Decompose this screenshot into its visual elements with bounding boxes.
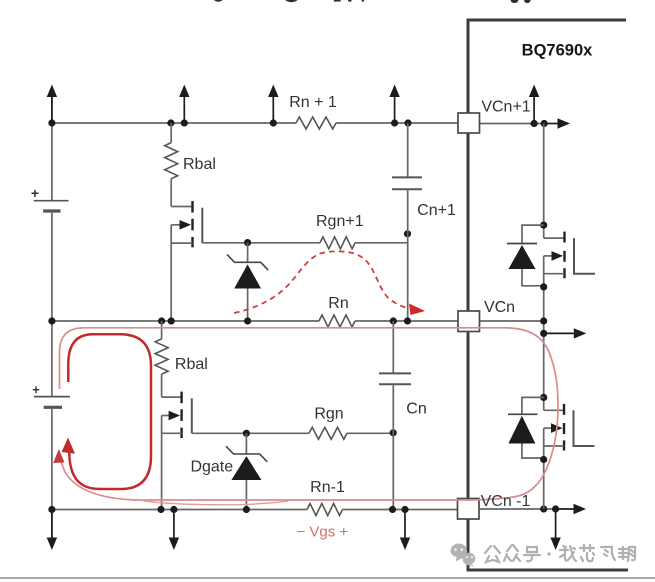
arrow up cell terminal x=534.1 [529, 85, 539, 124]
junction bottom rail x=246.4 [243, 506, 250, 513]
wire internal bus mid segment [543, 256, 545, 410]
transistor Q2 drain lead [162, 396, 182, 398]
wire Rbal2 bottom lead [161, 374, 163, 397]
arrow right at VCn internal [544, 328, 587, 338]
junction bottom rail x=543.7 [540, 505, 547, 512]
diode DL cathode bar [508, 413, 538, 415]
transistor Q2 gate plate [191, 398, 193, 433]
wire Q2 source bus to bottom rail [161, 416, 163, 510]
svg-text:− Vgs +: − Vgs + [296, 524, 348, 541]
junction internal diode L bottom [540, 456, 547, 463]
transistor Q1 gate plate [201, 208, 203, 243]
junction top rail x=170.9 [167, 119, 174, 126]
junction bottom rail x=173.9 [170, 506, 177, 513]
wire zener D1 bottom lead [247, 289, 249, 322]
transistor Q2 body arrow [169, 411, 181, 421]
transistor Q2 source lead [162, 432, 182, 434]
junction bottom rail x=161 [157, 506, 164, 513]
zener D1 cathode bar with wings [227, 255, 268, 271]
transistor Q1 source lead [171, 242, 192, 244]
wire Q1 source bus to VCn rail [170, 225, 172, 321]
zener Dgate triangle [231, 456, 261, 480]
junction VCn rail x=247.6 [244, 317, 251, 324]
svg-text:Dgate: Dgate [190, 459, 233, 476]
transistor QL body arrow [551, 423, 563, 433]
transistor Q1 body arrow lead [171, 224, 182, 226]
junction VCn rail x=407.5 [404, 317, 411, 324]
wire battery column bottom [51, 407, 53, 539]
IC U1 BQ7690x outline [468, 20, 628, 570]
junction gate row lower / Dgate [243, 430, 250, 437]
diode DU triangle [509, 245, 536, 269]
junction bottom rail x=51.9 [48, 506, 55, 513]
battery cell BT1 short plate [43, 209, 60, 212]
zener D1 triangle [234, 264, 261, 288]
svg-text:VCn -1: VCn -1 [481, 493, 531, 510]
diode DL branch wires [522, 397, 544, 458]
battery cell BT2 short plate [44, 406, 62, 409]
wire internal bus lower segment [543, 428, 545, 509]
capacitor Cn plates [379, 373, 411, 384]
junction VCn rail x=171.2 [168, 317, 175, 324]
wire bottom rail left of Rn-1 [52, 509, 307, 511]
junction internal diode U bottom [540, 283, 547, 290]
wire Cn+1 bottom lead [407, 189, 409, 321]
red circulation oval arrowhead [62, 438, 75, 454]
wire VCn rail left of Rn [52, 320, 319, 322]
wire Rbal1 bottom lead [170, 179, 172, 207]
arrow up cell terminal x=51.9 [47, 85, 57, 124]
junction internal bus arrow tap [540, 330, 547, 337]
resistor Rbal (upper) zigzag [165, 143, 178, 179]
wire VCn pin to internal bus [479, 320, 544, 322]
wire gate row upper to Cn+1 column [355, 242, 408, 244]
arrow up cell terminal x=184.3 [179, 85, 189, 124]
junction bottom rail x=405 [401, 506, 408, 513]
red current loop outer (cell n to chip and back) [60, 328, 559, 500]
wire Rbal1 top lead [170, 123, 172, 143]
junction top rail x=51.9 [48, 119, 55, 126]
watermark middot [547, 552, 551, 556]
transistor QU channel segments [563, 232, 565, 279]
wire bottom rail right of Rn-1 [343, 509, 458, 511]
junction VCn rail x=393.3 [390, 317, 397, 324]
transistor Q1 body arrow [180, 220, 192, 230]
arrow right at VCn-1 internal [556, 504, 586, 514]
arrow right at VCn+1 internal [545, 118, 570, 128]
junction top rail x=534.1 [531, 120, 538, 127]
junction on Cn+1 column [404, 230, 411, 237]
diode DU branch wires [522, 225, 544, 286]
junction top rail x=544.2 [541, 120, 548, 127]
wire gate row upper from Q1 gate [202, 242, 320, 244]
transistor QU body arrow lead [544, 255, 554, 257]
svg-text:Rbal: Rbal [175, 356, 208, 373]
transistor QU source lead [544, 273, 565, 275]
arrow up cell terminal x=394.6 [389, 85, 399, 124]
diode DL triangle [508, 416, 535, 444]
wire zener D1 top lead [247, 243, 249, 262]
wire top rail right of Rn+1 [336, 122, 458, 124]
zener Dgate cathode bar with wings [226, 446, 267, 462]
transistor QU drain lead [544, 237, 565, 239]
red dashed gate-loop curve [234, 251, 409, 313]
junction gate row / zener upper [244, 239, 251, 246]
transistor QL gate plate and lead [574, 410, 595, 446]
junction gate row lower / Cn column [390, 429, 397, 436]
transistor Q1 drain lead [171, 206, 192, 208]
transistor Q2 channel segments [180, 392, 182, 438]
wire VCn+1 pin to internal bus [479, 123, 547, 125]
battery cell BT1 long plate [34, 200, 69, 202]
red return line lower segment [143, 501, 288, 505]
junction internal bus at VCn [540, 317, 547, 324]
transistor QL source lead [544, 445, 564, 447]
junction VCn rail x=51.9 [48, 317, 55, 324]
junction top rail x=408 [404, 119, 411, 126]
arrow down cell terminal x=555.6 [550, 510, 560, 551]
resistor Rgn zigzag [309, 427, 347, 439]
transistor QU body arrow [552, 251, 564, 261]
transistor QL channel segments [563, 404, 565, 451]
transistor QU gate plate and lead [574, 238, 595, 274]
junction internal diode L top [540, 394, 547, 401]
junction VCn rail x=161.6 [158, 317, 165, 324]
wire gate row lower from Q2 gate [192, 432, 309, 434]
arrow down cell terminal x=51.9 [47, 510, 57, 551]
top cut-off text remnants [214, 0, 531, 3]
wire VCn rail right of Rn [355, 320, 458, 322]
pin VCn+1 square [458, 113, 480, 133]
svg-text:Rn-1: Rn-1 [310, 479, 345, 496]
svg-text:Cn+1: Cn+1 [417, 202, 456, 219]
resistor R(n+1) zigzag [296, 117, 336, 129]
resistor Rn zigzag [319, 315, 355, 327]
watermark wechat icon [450, 543, 475, 566]
pin VCn square [458, 311, 480, 332]
junction top rail x=394.6 [391, 119, 398, 126]
battery cell BT2 long plate [34, 396, 70, 398]
svg-text:+: + [31, 185, 39, 201]
capacitor Cn+1 plates [392, 177, 422, 189]
junction bottom rail x=555.6 [552, 505, 559, 512]
wire gate row lower to Cn column [347, 432, 393, 434]
red dashed curve arrowhead [409, 304, 425, 316]
transistor QL drain lead [544, 409, 564, 411]
wire Dgate top lead [245, 433, 247, 454]
wire Cn bottom lead [392, 384, 394, 509]
wire VCn-1 pin to internal bus [479, 508, 558, 510]
wire battery column mid [51, 211, 53, 397]
svg-text:Rn: Rn [328, 295, 348, 312]
svg-text:BQ7690x: BQ7690x [522, 42, 593, 60]
wire Rbal2 top lead [161, 321, 163, 339]
wire Cn+1 top lead [407, 123, 409, 177]
junction internal diode U top [540, 222, 547, 229]
svg-text:Rbal: Rbal [183, 156, 216, 173]
red circulation oval (cell n) [68, 334, 151, 489]
wire Dgate bottom lead [245, 480, 247, 510]
junction bottom rail x=392.5 [389, 506, 396, 513]
resistor Rgn+1 zigzag [320, 237, 355, 249]
wire Cn top lead [392, 321, 394, 373]
junction top rail x=184.3 [181, 119, 188, 126]
transistor Q2 body arrow lead [162, 415, 171, 417]
arrow up cell terminal x=273.3 [268, 85, 278, 124]
resistor Rbal (lower) zigzag [155, 339, 168, 374]
transistor QL body arrow lead [544, 427, 554, 429]
resistor Rn-1 zigzag [307, 504, 343, 516]
wire internal bus upper segment [543, 124, 545, 239]
bottom separator line [0, 577, 655, 579]
svg-text:VCn+1: VCn+1 [481, 99, 530, 116]
transistor Q1 channel segments [191, 201, 193, 247]
wire battery column top [51, 96, 53, 200]
diode DU cathode bar [507, 243, 537, 245]
svg-text:Rn + 1: Rn + 1 [289, 94, 337, 111]
pin VCn-1 square [458, 499, 480, 520]
svg-text:Rgn: Rgn [314, 406, 343, 423]
svg-text:+: + [32, 382, 40, 397]
red current loop outer arrowhead [53, 449, 64, 463]
svg-text:Rgn+1: Rgn+1 [316, 213, 364, 230]
svg-text:VCn: VCn [484, 299, 515, 316]
arrow down cell terminal x=405 [400, 510, 410, 551]
svg-text:Cn: Cn [406, 401, 426, 418]
junction top rail x=273.3 [270, 119, 277, 126]
wire top rail left of Rn+1 [52, 122, 296, 124]
arrow down cell terminal x=173.9 [169, 510, 179, 551]
watermark text gongzhonghao wochifeixiang [485, 546, 500, 562]
